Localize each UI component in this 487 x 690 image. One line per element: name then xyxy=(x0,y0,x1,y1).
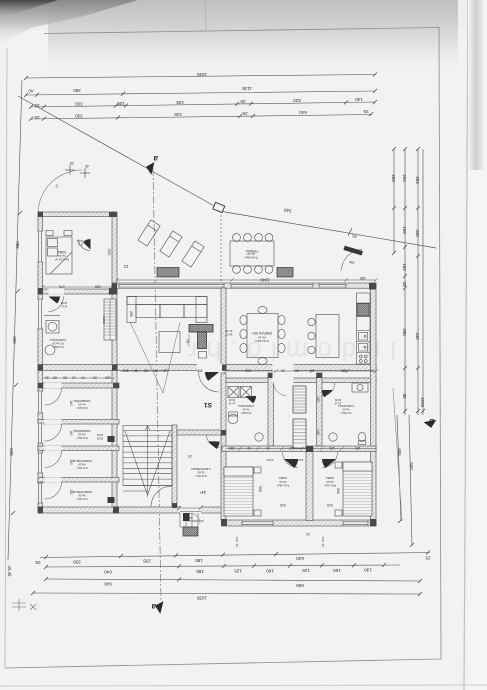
nightstand xyxy=(46,231,53,236)
svg-text:65: 65 xyxy=(53,376,57,380)
coffee table xyxy=(159,332,180,353)
dark wall junction piers xyxy=(38,212,377,526)
svg-text:160: 160 xyxy=(105,376,111,380)
porch hatch xyxy=(183,527,198,536)
svg-text:530: 530 xyxy=(409,462,414,470)
svg-text:Ver.2A: Ver.2A xyxy=(242,408,249,411)
fireplace T stem xyxy=(198,332,207,349)
svg-text:160: 160 xyxy=(69,430,73,436)
svg-text:21*: 21* xyxy=(200,490,206,494)
svg-text:530: 530 xyxy=(9,448,14,456)
label bedroom1 xyxy=(258,476,289,507)
wall rooms divider 3 xyxy=(38,478,119,483)
wall rooms divider 1 xyxy=(38,420,119,425)
section marker a top xyxy=(145,154,158,175)
svg-text:VJETROBRAN: VJETROBRAN xyxy=(191,467,210,471)
svg-text:21.10: 21.10 xyxy=(225,329,232,333)
svg-text:440: 440 xyxy=(415,332,420,340)
svg-text:160: 160 xyxy=(69,400,73,406)
room4 right door mark xyxy=(108,497,115,503)
bath1 sink xyxy=(255,433,263,441)
svg-text:125: 125 xyxy=(302,568,310,573)
dim row bottom 2 (640/185/125/160...) xyxy=(46,565,400,567)
dim row 1135 xyxy=(26,91,375,95)
section marker b right xyxy=(424,417,438,429)
svg-text:25: 25 xyxy=(242,111,248,116)
svg-text:425: 425 xyxy=(176,100,184,105)
planter east xyxy=(277,268,293,278)
dim row 445 xyxy=(31,115,372,120)
sofa left arm xyxy=(127,297,136,323)
bottom-left margin marks xyxy=(12,599,36,611)
svg-text:P=11.41m²: P=11.41m² xyxy=(324,484,336,487)
drawing frame top edge xyxy=(44,28,439,34)
door living-hall arc xyxy=(199,372,220,393)
svg-text:Ver.2A: Ver.2A xyxy=(58,254,66,258)
corner arc top-left of house xyxy=(38,170,82,212)
svg-text:36: 36 xyxy=(235,543,239,547)
bottom wall small dims xyxy=(235,532,325,547)
svg-text:300: 300 xyxy=(258,486,262,492)
svg-text:640: 640 xyxy=(296,556,304,561)
small cross dims near arc xyxy=(65,165,90,178)
svg-text:23: 23 xyxy=(188,454,192,458)
windows bottom wall xyxy=(242,521,368,526)
tick marks bottom rows xyxy=(31,551,430,597)
svg-text:GARD.: GARD. xyxy=(102,316,106,325)
door bath2 arc xyxy=(322,383,335,396)
dim row bottom 4 (1635) xyxy=(33,593,420,594)
wardrobe GARD xyxy=(102,299,116,340)
svg-text:160: 160 xyxy=(266,568,274,573)
svg-text:90: 90 xyxy=(310,369,314,373)
svg-text:168: 168 xyxy=(402,226,407,234)
svg-text:P=5.76m²: P=5.76m² xyxy=(195,474,206,477)
nightstands xyxy=(254,467,261,473)
svg-text:P=4.35m²: P=4.35m² xyxy=(241,411,252,414)
svg-text:KUPAONICA: KUPAONICA xyxy=(50,338,66,342)
svg-text:266: 266 xyxy=(402,174,407,182)
sofa chaise xyxy=(196,297,207,323)
boundary gate square xyxy=(213,202,225,212)
boundary line lower right xyxy=(393,388,402,521)
svg-text:185: 185 xyxy=(195,558,203,563)
lounger 2 xyxy=(160,231,182,257)
dining chair bottom xyxy=(258,358,267,365)
right col labels (rotated) xyxy=(391,174,425,470)
wall center-right vertical lower xyxy=(221,373,226,520)
svg-text:40-25: 40-25 xyxy=(209,440,216,444)
wall bath block top xyxy=(222,378,376,383)
svg-text:105: 105 xyxy=(117,101,125,106)
svg-text:330: 330 xyxy=(73,559,81,564)
dim row 425 xyxy=(31,102,375,107)
svg-text:Ver.2A: Ver.2A xyxy=(78,433,86,436)
svg-text:PREDSOBLJE: PREDSOBLJE xyxy=(72,490,91,494)
svg-text:310: 310 xyxy=(327,503,333,507)
planter west xyxy=(157,268,179,278)
svg-text:21: 21 xyxy=(306,532,310,536)
svg-text:345: 345 xyxy=(415,229,420,237)
stair center rail xyxy=(147,426,149,498)
bath2 sink xyxy=(329,433,337,441)
svg-text:280: 280 xyxy=(129,311,133,317)
kitchen island xyxy=(316,315,339,358)
svg-text:P=6.15m²: P=6.15m² xyxy=(76,497,87,500)
svg-text:P1 Ver.2A: P1 Ver.2A xyxy=(52,342,63,345)
tick marks top rows xyxy=(24,73,377,121)
svg-text:P=44.35m²: P=44.35m² xyxy=(255,339,269,343)
dim row bottom 1 xyxy=(40,553,430,558)
sink A xyxy=(45,345,55,355)
svg-text:380: 380 xyxy=(73,88,81,93)
svg-text:90.00: 90.00 xyxy=(228,398,235,401)
svg-text:Ver.2A: Ver.2A xyxy=(247,252,255,256)
svg-text:25: 25 xyxy=(402,282,407,287)
svg-text:640: 640 xyxy=(104,582,112,587)
svg-text:20.02: 20.02 xyxy=(96,436,103,439)
svg-text:80: 80 xyxy=(310,446,314,450)
top-left dark fold shadow xyxy=(0,0,138,46)
stair treads xyxy=(123,431,172,480)
svg-text:KUPAONICA: KUPAONICA xyxy=(238,404,254,408)
door SOBA A arc xyxy=(79,239,91,251)
fireplace T bar xyxy=(189,325,213,333)
right dim col 3 xyxy=(417,149,419,415)
svg-text:03: 03 xyxy=(93,376,97,380)
svg-text:40-60: 40-60 xyxy=(296,458,303,462)
fireplace base xyxy=(199,352,207,359)
door room3 arc xyxy=(45,451,62,468)
nightstand 2 xyxy=(335,462,342,468)
opening corridor to dining xyxy=(273,364,294,384)
svg-text:152: 152 xyxy=(402,263,407,271)
right col ticks xyxy=(392,147,425,547)
bath2 toilet xyxy=(358,432,365,441)
pillows xyxy=(48,239,58,247)
wall center-left vertical xyxy=(112,212,117,513)
wall bottom right xyxy=(222,520,376,526)
wall bottom left xyxy=(38,507,222,513)
door bath1 arc xyxy=(274,383,287,396)
entry exterior door leaf xyxy=(183,513,190,521)
top gray scanning cloud xyxy=(48,0,458,72)
label bath A xyxy=(50,301,68,348)
svg-text:90: 90 xyxy=(247,446,251,450)
svg-text:640: 640 xyxy=(299,110,307,115)
svg-text:P=4.60m²: P=4.60m² xyxy=(52,345,63,348)
wall center-right vertical upper xyxy=(221,288,226,368)
svg-text:Ø 11: Ø 11 xyxy=(61,305,67,309)
wall house right xyxy=(371,283,377,526)
porch steps xyxy=(180,513,198,527)
svg-text:165: 165 xyxy=(95,285,101,289)
svg-text:94: 94 xyxy=(81,376,85,380)
svg-text:79k: 79k xyxy=(349,260,355,264)
svg-text:520: 520 xyxy=(293,98,301,103)
svg-text:40.60: 40.60 xyxy=(60,301,67,305)
wall blockA divider xyxy=(38,289,117,294)
wall baths/bedrooms xyxy=(222,446,376,452)
door leaf wedges (dark) xyxy=(49,239,337,468)
top dim labels (rotated 180) xyxy=(28,72,369,120)
svg-text:183: 183 xyxy=(355,446,361,450)
glazing top wall xyxy=(119,284,346,288)
dim line 1040 xyxy=(115,278,378,282)
svg-text:280: 280 xyxy=(402,328,407,336)
lounger 1 xyxy=(138,220,274,273)
svg-text:25: 25 xyxy=(34,115,40,120)
svg-text:285: 285 xyxy=(15,241,20,249)
svg-text:185: 185 xyxy=(360,276,366,280)
svg-text:160: 160 xyxy=(69,489,73,495)
svg-text:30: 30 xyxy=(240,99,246,104)
stairs outline xyxy=(123,426,172,486)
svg-text:143: 143 xyxy=(316,396,320,402)
svg-text:P=11.46m²: P=11.46m² xyxy=(277,484,289,487)
door bedroom1 arc xyxy=(283,452,299,468)
bed 2 xyxy=(343,462,372,516)
opening entry exterior door xyxy=(180,507,201,515)
svg-text:143: 143 xyxy=(316,429,320,435)
svg-text:P=42.88m²: P=42.88m² xyxy=(244,256,257,260)
sofa seat 2 xyxy=(160,305,184,318)
bottom dim labels xyxy=(35,556,431,601)
svg-text:330: 330 xyxy=(75,102,83,107)
svg-text:390: 390 xyxy=(12,336,17,344)
svg-text:25: 25 xyxy=(35,560,41,565)
svg-text:SOBA: SOBA xyxy=(279,476,287,480)
sofa back xyxy=(127,297,207,305)
svg-text:79: 79 xyxy=(185,339,189,343)
svg-text:Ver.2A: Ver.2A xyxy=(78,494,86,497)
wall house left xyxy=(38,212,43,513)
fold line vertical top center xyxy=(205,0,206,30)
stove burners xyxy=(359,355,362,358)
wall cross central xyxy=(38,365,376,371)
svg-text:585: 585 xyxy=(341,369,347,373)
svg-text:140: 140 xyxy=(321,536,325,541)
svg-text:S1: S1 xyxy=(204,401,212,408)
svg-text:d1.15: d1.15 xyxy=(228,401,235,404)
svg-text:20.07: 20.07 xyxy=(225,333,232,337)
sink bowls xyxy=(359,333,368,341)
windows left wall xyxy=(37,231,43,503)
wall main top (living/dining) xyxy=(112,283,376,288)
dim row bottom 3 (640/690) xyxy=(46,579,420,581)
room2 right door mark xyxy=(108,436,115,442)
svg-text:40.60: 40.60 xyxy=(76,239,83,243)
svg-text:160: 160 xyxy=(69,459,73,465)
svg-text:25: 25 xyxy=(425,556,431,561)
svg-text:235: 235 xyxy=(143,559,151,564)
svg-text:25: 25 xyxy=(70,161,74,165)
dining chairs right xyxy=(278,315,285,324)
svg-text:95: 95 xyxy=(402,394,407,399)
svg-text:40: 40 xyxy=(28,89,34,94)
svg-text:1135: 1135 xyxy=(242,86,252,91)
svg-text:P=6.32m²: P=6.32m² xyxy=(76,406,87,409)
bath2 counter xyxy=(352,383,368,392)
svg-text:65: 65 xyxy=(154,369,158,373)
svg-text:130: 130 xyxy=(355,97,363,102)
svg-text:31.02: 31.02 xyxy=(96,433,103,436)
stair lower flight lines xyxy=(123,486,172,492)
svg-text:1069: 1069 xyxy=(420,397,425,407)
svg-text:320: 320 xyxy=(107,249,112,256)
svg-text:ULAZ: ULAZ xyxy=(197,471,205,475)
svg-text:40-60: 40-60 xyxy=(266,458,273,462)
svg-text:220: 220 xyxy=(245,369,251,373)
svg-text:40: 40 xyxy=(85,164,89,168)
svg-text:1040: 1040 xyxy=(260,278,270,283)
svg-text:140: 140 xyxy=(235,536,239,541)
svg-text:90.00: 90.00 xyxy=(334,398,341,401)
bath1 dryer xyxy=(241,387,252,398)
svg-text:21: 21 xyxy=(123,264,128,269)
svg-text:1535: 1535 xyxy=(196,72,207,77)
room door gaps xyxy=(45,383,62,388)
svg-text:70: 70 xyxy=(295,369,299,373)
opening living-hall door xyxy=(197,364,222,372)
svg-text:30: 30 xyxy=(134,369,138,373)
svg-text:110: 110 xyxy=(123,369,129,373)
label bath1 xyxy=(228,398,254,414)
svg-text:265: 265 xyxy=(391,174,396,182)
wall entry top xyxy=(177,430,222,435)
svg-text:10: 10 xyxy=(72,376,76,380)
pergola dashed line xyxy=(220,211,222,283)
svg-text:Ver.2A: Ver.2A xyxy=(78,463,86,466)
dim row 1535 xyxy=(26,75,375,79)
sofa seat 1 xyxy=(136,305,160,318)
left dim line xyxy=(8,80,22,560)
svg-text:36: 36 xyxy=(321,543,325,547)
boundary line east xyxy=(225,212,436,248)
section marker a bottom xyxy=(151,599,163,613)
bathA door gap xyxy=(49,289,65,295)
svg-text:21: 21 xyxy=(370,369,374,373)
svg-text:130: 130 xyxy=(364,568,372,573)
dim row under SOBA A xyxy=(41,285,114,289)
svg-text:170: 170 xyxy=(59,285,65,289)
svg-text:25: 25 xyxy=(363,109,369,114)
wall blockA top xyxy=(38,212,115,217)
stair arrow head xyxy=(146,426,150,431)
svg-text:445: 445 xyxy=(174,112,182,117)
svg-text:80: 80 xyxy=(63,376,67,380)
dining table xyxy=(247,314,278,358)
svg-text:PREDSOBLJE: PREDSOBLJE xyxy=(72,459,91,463)
wall bath divider 2 xyxy=(317,373,323,446)
svg-text:690: 690 xyxy=(296,583,304,588)
bath1 toilet xyxy=(228,414,238,424)
svg-text:30: 30 xyxy=(45,376,49,380)
terrace table xyxy=(230,241,274,266)
svg-text:90: 90 xyxy=(281,369,285,373)
svg-text:a: a xyxy=(151,602,156,611)
svg-text:335: 335 xyxy=(163,369,169,373)
svg-text:118: 118 xyxy=(329,446,334,450)
boundary line west xyxy=(18,96,225,212)
lounger 3 xyxy=(182,241,204,267)
svg-text:330: 330 xyxy=(75,114,83,119)
right dim col lower (605/530) xyxy=(397,415,401,521)
washing machine xyxy=(46,321,59,334)
door bath A arc xyxy=(49,297,64,312)
wall rooms top xyxy=(38,383,119,388)
label bath2 xyxy=(334,398,354,414)
svg-text:Ver.2A: Ver.2A xyxy=(78,403,86,406)
svg-text:205: 205 xyxy=(415,176,420,184)
wall bath divider 1 xyxy=(268,373,274,446)
dining chair top xyxy=(258,307,267,314)
label TERASA xyxy=(244,249,258,260)
svg-text:DNEVNI DIO: DNEVNI DIO xyxy=(252,331,272,335)
svg-text:300: 300 xyxy=(336,488,340,494)
svg-text:P=4.35m²: P=4.35m² xyxy=(341,411,352,414)
svg-text:183: 183 xyxy=(229,446,235,450)
label SOBA A xyxy=(55,239,112,262)
wall rooms divider 2 xyxy=(38,446,119,451)
label bedroom2 xyxy=(324,476,340,507)
svg-text:125: 125 xyxy=(234,569,242,574)
door room4 arc xyxy=(45,482,62,499)
svg-text:P=13.35 m²: P=13.35 m² xyxy=(55,258,69,262)
svg-text:SOBA: SOBA xyxy=(57,250,67,254)
bottom faint page line xyxy=(0,685,487,686)
svg-text:1635: 1635 xyxy=(196,596,207,601)
door terrace leaf xyxy=(343,246,362,256)
svg-text:30: 30 xyxy=(266,446,270,450)
dining chairs left xyxy=(240,315,247,324)
blanket fold xyxy=(50,252,72,274)
section line a vertical xyxy=(153,168,161,600)
svg-text:SOBA: SOBA xyxy=(326,476,334,480)
door bedroom2 arc xyxy=(322,452,338,468)
svg-text:143: 143 xyxy=(289,446,295,450)
drawing frame bottom edge xyxy=(5,659,441,668)
svg-text:Ver.2A: Ver.2A xyxy=(342,408,349,411)
svg-text:a: a xyxy=(153,154,158,163)
island stools xyxy=(308,318,315,325)
door terrace arc xyxy=(342,250,363,271)
svg-text:Ver.2A: Ver.2A xyxy=(326,480,334,483)
door room1 arc xyxy=(45,388,62,405)
terrace chairs top xyxy=(233,234,241,242)
kitchen counter xyxy=(357,293,371,364)
entry dim ticks xyxy=(177,506,203,510)
fridge crosshatch xyxy=(357,304,369,317)
svg-text:b: b xyxy=(429,417,434,426)
svg-text:122: 122 xyxy=(187,516,192,520)
svg-text:P=6.15m²: P=6.15m² xyxy=(76,466,87,469)
svg-text:160: 160 xyxy=(333,568,341,573)
bed SOBA A xyxy=(46,237,72,274)
bed 1 xyxy=(224,467,253,516)
svg-text:23: 23 xyxy=(108,291,112,295)
svg-text:Ø 11: Ø 11 xyxy=(77,243,83,247)
wall stair side xyxy=(172,425,177,507)
svg-text:45,45: 45,45 xyxy=(7,565,12,577)
terrace chairs bottom xyxy=(233,266,241,274)
right dim col 2 xyxy=(404,149,406,415)
wall bedroom divider xyxy=(306,452,313,521)
door entry arc xyxy=(207,435,220,448)
drawing frame right edge xyxy=(439,28,441,660)
svg-text:80: 80 xyxy=(144,369,148,373)
bath1 washer xyxy=(228,387,239,398)
